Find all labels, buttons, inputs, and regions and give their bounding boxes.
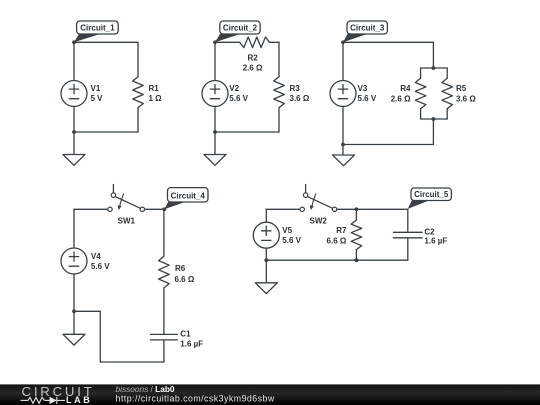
svg-text:V5: V5 [282,226,292,235]
svg-text:3.6 Ω: 3.6 Ω [456,94,476,103]
svg-text:R3: R3 [290,84,301,93]
svg-text:R1: R1 [149,84,160,93]
svg-text:R6: R6 [175,264,186,273]
svg-text:6.6 Ω: 6.6 Ω [175,275,195,284]
svg-text:V1: V1 [91,84,101,93]
svg-text:1.6 µF: 1.6 µF [180,339,203,348]
svg-text:V4: V4 [91,252,101,261]
svg-text:SW1: SW1 [118,216,136,225]
svg-text:5.6 V: 5.6 V [358,94,377,103]
svg-text:1 Ω: 1 Ω [149,94,163,103]
svg-text:LAB: LAB [66,395,92,405]
svg-text:R4: R4 [400,84,411,93]
svg-text:2.6 Ω: 2.6 Ω [391,94,411,103]
svg-text:Circuit_3: Circuit_3 [350,24,385,33]
svg-text:5 V: 5 V [91,94,104,103]
svg-text:5.6 V: 5.6 V [282,236,301,245]
svg-text:6.6 Ω: 6.6 Ω [327,237,347,246]
svg-text:5.6 V: 5.6 V [91,262,110,271]
svg-text:R5: R5 [456,84,467,93]
svg-text:SW2: SW2 [310,216,328,225]
svg-text:V2: V2 [229,84,239,93]
svg-text:http://circuitlab.com/csk3ykm9: http://circuitlab.com/csk3ykm9d6sbw [116,393,275,403]
svg-text:R7: R7 [336,226,347,235]
svg-text:C1: C1 [180,329,191,338]
svg-text:V3: V3 [358,84,368,93]
svg-text:3.6 Ω: 3.6 Ω [290,94,310,103]
svg-text:Circuit_2: Circuit_2 [223,24,258,33]
svg-text:C2: C2 [424,227,435,236]
svg-text:Circuit_5: Circuit_5 [414,190,449,199]
svg-text:5.6 V: 5.6 V [229,94,248,103]
svg-text:Circuit_4: Circuit_4 [171,192,206,201]
svg-text:1.6 µF: 1.6 µF [424,237,447,246]
svg-text:R2: R2 [247,54,258,63]
svg-text:Circuit_1: Circuit_1 [80,24,115,33]
svg-text:2.6 Ω: 2.6 Ω [243,64,263,73]
